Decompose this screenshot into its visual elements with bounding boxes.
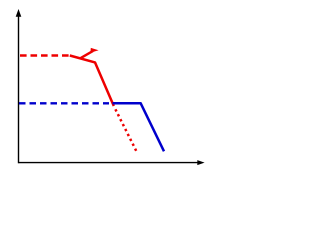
- blue dashed price reference line: [19, 102, 109, 104]
- x-axis arrowhead: [197, 160, 204, 165]
- y-axis arrowhead: [16, 9, 22, 17]
- red shift arrowhead: [90, 48, 98, 53]
- red shift arrow shaft: [80, 51, 93, 59]
- red dotted extension: [115, 109, 136, 152]
- red dashed price reference line: [20, 54, 71, 56]
- x-axis: [19, 162, 200, 164]
- red solid kinked curve: [70, 56, 114, 107]
- blue solid curve: [113, 103, 165, 151]
- y-axis: [18, 15, 20, 163]
